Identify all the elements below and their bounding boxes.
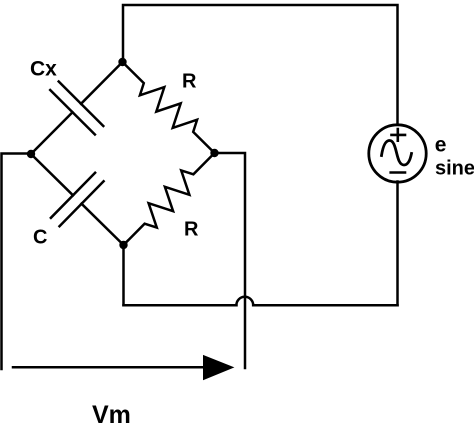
capacitor C plate 2 bbox=[60, 181, 104, 226]
arrow Vm head bbox=[203, 355, 234, 380]
svg-text:R: R bbox=[182, 71, 197, 93]
sine symbol inside source bbox=[382, 141, 412, 166]
svg-text:C: C bbox=[33, 227, 47, 249]
minus sign (-) in source bbox=[391, 171, 405, 174]
svg-text:e: e bbox=[435, 134, 447, 157]
capacitor Cx plate 2 bbox=[50, 90, 95, 135]
wire top: top node up, across to source, down to source top bbox=[123, 5, 398, 125]
svg-text:Vm: Vm bbox=[92, 401, 131, 424]
capacitor C (bottom-left arm): wire stub from left node bbox=[31, 154, 73, 195]
node middle bbox=[210, 149, 218, 157]
resistor R (bottom-right arm) bbox=[124, 153, 215, 245]
svg-text:Cx: Cx bbox=[30, 58, 57, 81]
node left bbox=[27, 150, 35, 158]
arrow Vm shaft bbox=[13, 366, 204, 369]
capacitor Cx (top-left arm): wire stub from top node bbox=[81, 62, 123, 104]
capacitor Cx wire stub to left node bbox=[31, 112, 73, 154]
plus sign (+) in source bbox=[392, 129, 406, 141]
wire middle node right then down (detector branch) bbox=[215, 153, 246, 368]
node top bbox=[118, 58, 126, 66]
capacitor Cx plate 1 bbox=[59, 82, 104, 127]
resistor R (top-right arm) bbox=[123, 62, 215, 153]
node bottom bbox=[119, 241, 127, 249]
wire source bottom down bbox=[396, 182, 399, 306]
wire left node to left edge then down bbox=[2, 154, 32, 370]
capacitor C wire stub to bottom node bbox=[82, 204, 124, 245]
source U1 (sine source circle) bbox=[369, 125, 426, 182]
svg-text:sine: sine bbox=[435, 158, 474, 180]
wire hop over vertical at x=245 bbox=[236, 297, 253, 305]
wire bottom node stub down bbox=[122, 245, 125, 305]
wire bottom right segment bbox=[253, 304, 397, 307]
svg-text:R: R bbox=[184, 218, 199, 240]
wire bottom left segment bbox=[124, 304, 237, 307]
capacitor C plate 1 bbox=[51, 173, 95, 218]
